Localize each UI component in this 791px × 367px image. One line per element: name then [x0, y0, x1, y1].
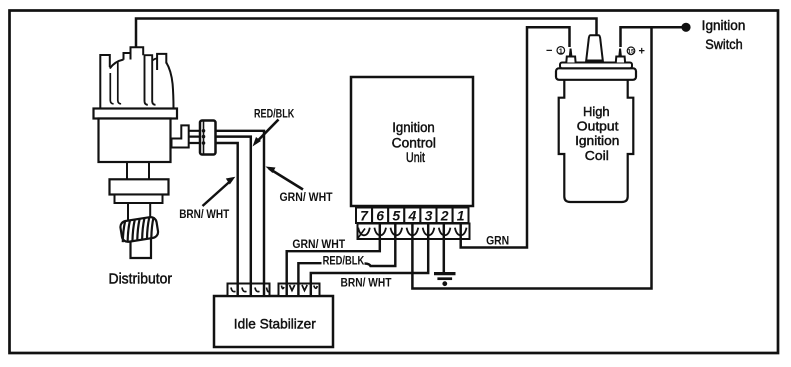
svg-text:1: 1: [457, 208, 465, 224]
coil terminal 15 post: [616, 57, 625, 63]
svg-text:Control: Control: [392, 136, 436, 151]
distributor body: [99, 119, 171, 163]
wire: pin 2 to ground: [443, 239, 446, 273]
wire: connector leads between L piece and block: [189, 131, 200, 143]
distributor side connector L piece: [172, 125, 189, 147]
svg-text:BRN/ WHT: BRN/ WHT: [179, 209, 229, 221]
distributor sub collar: [115, 195, 163, 204]
svg-text:Coil: Coil: [585, 148, 609, 163]
idle stabilizer connector strip right: [279, 284, 320, 297]
wire GRN/WHT: connector block to idle stabilizer (turns at x263): [216, 131, 265, 284]
ignition control unit: [351, 77, 473, 206]
ground: [434, 274, 456, 287]
svg-text:+: +: [639, 46, 645, 58]
svg-text:7: 7: [360, 208, 369, 224]
label RED/BLK upper with arrow: [253, 108, 295, 146]
svg-text:Ignition: Ignition: [702, 18, 746, 33]
svg-text:6: 6: [376, 208, 384, 224]
label BRN/WHT upper with arrow: [179, 177, 235, 221]
svg-text:Output: Output: [577, 119, 619, 134]
distributor gear: [120, 216, 159, 242]
coil cap upper band: [560, 63, 632, 69]
label terminal 1 circled: [557, 47, 565, 56]
wire RED/BLK: idle stabilizer to pin 5: [298, 239, 395, 284]
wire: high tension lead, distributor cap to coil tower: [136, 19, 597, 49]
svg-text:5: 5: [392, 208, 400, 224]
distributor cap left tower: [100, 55, 110, 109]
svg-text:15: 15: [627, 49, 635, 56]
svg-text:GRN/ WHT: GRN/ WHT: [280, 192, 333, 204]
distributor shaft lower: [131, 235, 152, 258]
svg-text:1: 1: [559, 48, 563, 55]
wire BRN/WHT: connector block to idle stabilizer (turns at x236): [216, 143, 238, 284]
label terminal 15 circled: [627, 47, 635, 56]
distributor cap flange: [94, 109, 178, 119]
distributor neck: [127, 162, 149, 179]
svg-text:Unit: Unit: [406, 150, 425, 165]
distributor cap dome mid segment: [152, 58, 157, 60]
coil terminal 1 post: [566, 57, 575, 63]
idle stabilizer: [214, 296, 333, 347]
distributor cap dome right side: [166, 63, 173, 109]
distributor cap dome left shoulder: [110, 60, 124, 69]
wire: ignition switch to coil terminal 15: [621, 27, 687, 47]
svg-text:−: −: [546, 45, 552, 57]
distributor collar: [110, 179, 169, 194]
ignition switch: [681, 18, 745, 52]
svg-text:Switch: Switch: [705, 37, 742, 52]
svg-text:Ignition: Ignition: [392, 120, 435, 135]
distributor cap right tower: [145, 55, 156, 105]
svg-text:RED/BLK: RED/BLK: [323, 255, 365, 267]
svg-text:RED/BLK: RED/BLK: [254, 108, 295, 120]
distributor connector block: [200, 121, 216, 155]
ignition control unit connector strip: [358, 224, 470, 240]
svg-text:4: 4: [408, 208, 417, 224]
distributor cap center tower step: [124, 53, 131, 60]
coil body outline with side steps: [559, 80, 634, 202]
distributor: [94, 47, 178, 258]
wire BRN/WHT: idle stabilizer to pin 3: [311, 239, 428, 284]
svg-text:2: 2: [440, 208, 449, 224]
svg-text:Ignition: Ignition: [575, 133, 619, 148]
coil center tower: [586, 35, 603, 60]
coil text: [575, 104, 619, 163]
coil cap lower band: [556, 68, 636, 80]
svg-text:High: High: [583, 104, 610, 119]
wire GRN/WHT: idle stabilizer to pin 6: [287, 239, 380, 284]
svg-text:3: 3: [425, 208, 433, 224]
pin row boxes 7 6 5 4 3 2 1: [356, 208, 469, 224]
wire: pin 4 to ignition switch feed (down, right, up): [412, 28, 651, 289]
svg-text:GRN/ WHT: GRN/ WHT: [292, 239, 345, 251]
svg-text:BRN/ WHT: BRN/ WHT: [341, 277, 392, 289]
distributor shaft upper: [128, 203, 150, 220]
label GRN/WHT upper with arrow: [266, 167, 333, 205]
svg-text:Distributor: Distributor: [109, 271, 173, 287]
idle stabilizer connector strip left: [228, 284, 270, 297]
distributor cap inner contour left: [110, 73, 113, 104]
wire GRN: pin 1 to coil terminal 1: [461, 27, 570, 247]
wire RED/BLK: connector block to idle stabilizer (turns at x250): [216, 137, 251, 284]
svg-text:Idle Stabilizer: Idle Stabilizer: [234, 316, 316, 332]
distributor cap far right tower: [157, 54, 166, 70]
svg-text:GRN: GRN: [486, 233, 509, 247]
ignition coil: [556, 35, 636, 202]
distributor cap center tower: [131, 47, 144, 59]
